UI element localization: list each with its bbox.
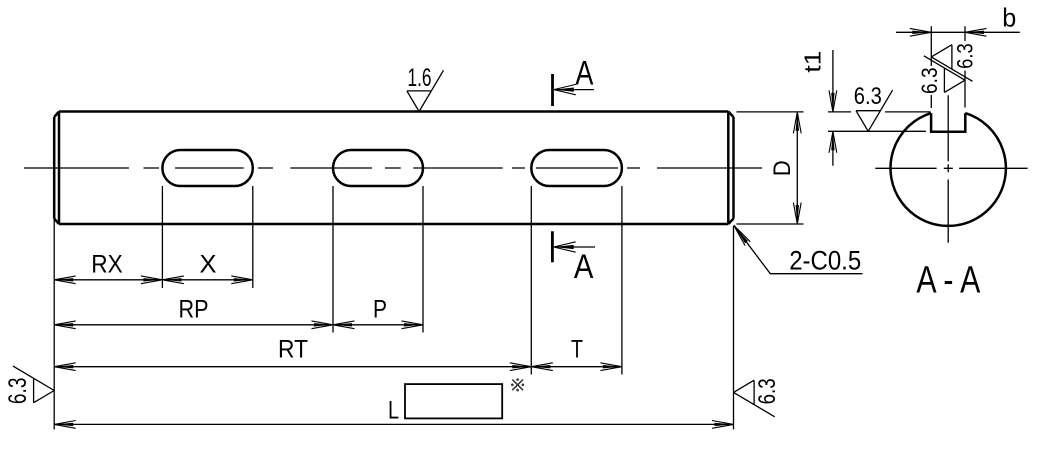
- extension line slot1 left: [161, 186, 163, 288]
- dimension RT line: [54, 366, 531, 368]
- shaft centerline: [24, 167, 762, 169]
- cutting plane mark bottom: [551, 231, 554, 262]
- svg-text:6.3: 6.3: [952, 43, 977, 69]
- svg-text:6.3: 6.3: [854, 83, 882, 110]
- dimension RX line: [54, 279, 162, 281]
- section circle: [891, 113, 1006, 226]
- dimension RP line: [54, 324, 333, 326]
- svg-text:b: b: [1002, 2, 1016, 32]
- cutting plane arrow top: [555, 89, 594, 91]
- svg-text:A: A: [575, 54, 593, 92]
- extension lines t1: [828, 112, 931, 131]
- extension line left end: [53, 219, 55, 430]
- svg-text:P: P: [373, 296, 387, 324]
- svg-text:6.3: 6.3: [4, 378, 32, 405]
- roughness symbol 6.3 left end: [13, 366, 54, 403]
- section centerline vertical: [947, 95, 949, 243]
- svg-text:2-C0.5: 2-C0.5: [789, 245, 861, 275]
- cutting plane arrow bottom: [555, 246, 595, 248]
- dimension D line: [796, 112, 798, 224]
- leader 2-C0.5: [734, 225, 863, 273]
- blank value box: [405, 384, 502, 418]
- roughness symbol 1.6: [407, 70, 444, 111]
- dimension t1 line: [832, 50, 834, 166]
- extension line slot2 left: [332, 186, 334, 333]
- extension line right end: [733, 226, 735, 430]
- left end face with chamfer: [54, 112, 59, 225]
- reference mark kome: [511, 378, 524, 391]
- svg-text:RX: RX: [91, 251, 123, 279]
- extension line slot3 right: [621, 186, 623, 375]
- section centerline horizontal: [875, 167, 1027, 169]
- dimension T line: [531, 366, 622, 368]
- section keyway slot: [931, 113, 965, 132]
- svg-text:RT: RT: [278, 336, 308, 364]
- svg-text:A - A: A - A: [916, 260, 981, 302]
- keyway slot 2: [333, 150, 423, 186]
- roughness symbol 6.3 right end: [734, 380, 775, 417]
- svg-text:L: L: [388, 396, 399, 424]
- svg-text:D: D: [769, 160, 796, 176]
- svg-text:t1: t1: [799, 51, 825, 73]
- cutting plane mark top: [551, 74, 554, 106]
- extension line slot1 right: [252, 186, 254, 288]
- svg-text:RP: RP: [179, 296, 209, 324]
- dimension L line: [54, 423, 733, 425]
- extension lines b: [931, 26, 965, 108]
- svg-text:X: X: [200, 251, 217, 279]
- keyway slot 1: [162, 150, 252, 186]
- roughness symbol 6.3 keyway right wall: [924, 56, 965, 93]
- shaft body outline: [59, 112, 728, 225]
- roughness symbol 6.3 keyseat floor: [856, 90, 893, 131]
- svg-text:T: T: [571, 336, 583, 364]
- svg-text:6.3: 6.3: [917, 67, 942, 94]
- dimension P line: [333, 324, 423, 326]
- svg-text:6.3: 6.3: [754, 378, 781, 404]
- extension lines D: [737, 112, 804, 224]
- roughness symbol 6.3 keyway left wall: [931, 45, 972, 82]
- extension line slot3 left: [530, 186, 532, 375]
- extension line slot2 right: [422, 186, 424, 333]
- dimension X line: [162, 279, 252, 281]
- svg-text:1.6: 1.6: [408, 64, 432, 92]
- svg-text:A: A: [574, 248, 594, 286]
- right end face with chamfer: [728, 112, 733, 225]
- dimension b line: [896, 31, 1020, 33]
- keyway slot 3: [531, 150, 622, 186]
